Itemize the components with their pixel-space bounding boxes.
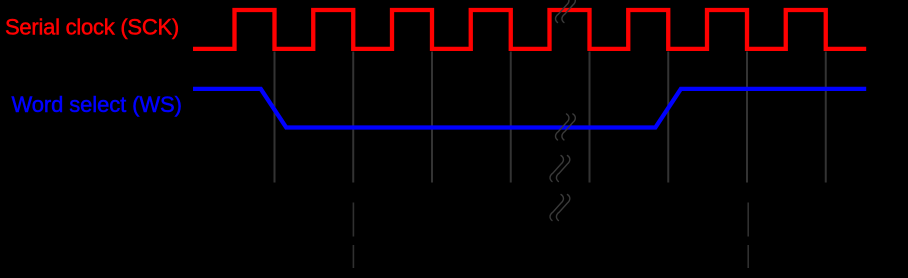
svg-text:Word select (WS): Word select (WS) (12, 92, 182, 117)
svg-text:Serial clock (SCK): Serial clock (SCK) (5, 15, 179, 40)
